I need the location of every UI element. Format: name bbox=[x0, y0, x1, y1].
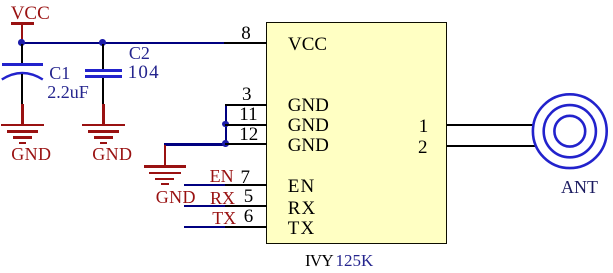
pin number 3 bbox=[242, 85, 252, 104]
pin name EN bbox=[288, 177, 316, 196]
pin name GND 11 bbox=[288, 116, 329, 135]
pin name VCC bbox=[288, 35, 327, 54]
pin number 7 bbox=[241, 168, 251, 187]
part label IVY 125K bbox=[305, 252, 333, 269]
ground symbol under C2 bbox=[0, 0, 613, 1]
ground stub under C1 bbox=[21, 104, 23, 125]
wire VCC rail bbox=[20, 42, 225, 44]
capacitor C2 top pin bbox=[102, 44, 104, 69]
pin 5 line bbox=[225, 205, 268, 207]
pin 8 line bbox=[224, 42, 267, 44]
junction at pin 11 bbox=[222, 121, 229, 128]
pin 12 line bbox=[225, 143, 268, 145]
pin 7 line bbox=[225, 184, 268, 186]
ground stub under C2 bbox=[102, 104, 104, 125]
net label EN bbox=[210, 167, 234, 185]
antenna ANT bbox=[528, 90, 613, 173]
junction at C2 bbox=[99, 39, 106, 46]
net label TX bbox=[212, 209, 236, 227]
ground symbol middle bbox=[0, 0, 613, 1]
pin 3 line bbox=[225, 104, 268, 106]
pin name RX bbox=[288, 199, 317, 218]
junction at C1 bbox=[18, 39, 25, 46]
pin number 6 bbox=[244, 207, 254, 226]
pin number 5 bbox=[244, 187, 254, 206]
capacitor C1 top pin bbox=[21, 44, 23, 64]
net label VCC bbox=[11, 4, 50, 23]
pin 1 line bbox=[447, 124, 534, 126]
value 104 bbox=[128, 63, 160, 82]
ground stub middle bbox=[164, 145, 166, 166]
pin 11 line bbox=[225, 124, 268, 126]
pin number 8 bbox=[241, 24, 251, 43]
pin 2 line bbox=[447, 145, 535, 147]
pin number 12 bbox=[239, 125, 258, 144]
wire TX bbox=[184, 226, 227, 228]
wire RX bbox=[184, 205, 227, 207]
wire EN bbox=[184, 184, 227, 186]
capacitor C2 bottom plate bbox=[85, 75, 123, 77]
capacitor C1 bottom plate arc bbox=[0, 60, 46, 86]
GND label middle bbox=[156, 188, 196, 206]
pin number 11 bbox=[239, 105, 257, 124]
power symbol VCC stub bbox=[21, 24, 23, 41]
vertical wire joining GND pins 3 11 12 bbox=[225, 104, 227, 145]
wire from middle ground to GND pins bbox=[164, 143, 226, 145]
pin name TX bbox=[288, 219, 316, 238]
GND label under C1 bbox=[11, 145, 51, 163]
designator C2 bbox=[129, 44, 150, 62]
part value 125K bbox=[336, 252, 374, 269]
pin name GND 12 bbox=[288, 136, 329, 155]
designator C1 bbox=[49, 64, 70, 82]
capacitor C1 top plate bbox=[2, 63, 43, 65]
net label RX bbox=[210, 189, 235, 207]
pin 6 line bbox=[225, 226, 268, 228]
ground symbol under C1 bbox=[0, 0, 613, 1]
power symbol VCC bar bbox=[11, 22, 34, 25]
pin number 2 bbox=[418, 138, 428, 157]
capacitor C1 bottom pin bbox=[21, 74, 23, 105]
capacitor C2 top plate bbox=[85, 69, 123, 71]
capacitor C2 bottom pin bbox=[102, 78, 104, 104]
pin number 1 bbox=[419, 117, 429, 136]
value 2.2uF bbox=[47, 83, 89, 101]
GND label under C2 bbox=[92, 145, 132, 163]
net label ANT bbox=[561, 178, 598, 196]
IC U1 body IVY 125K bbox=[266, 22, 446, 244]
pin name GND 3 bbox=[288, 96, 329, 115]
junction at pin 12 bbox=[222, 140, 229, 147]
